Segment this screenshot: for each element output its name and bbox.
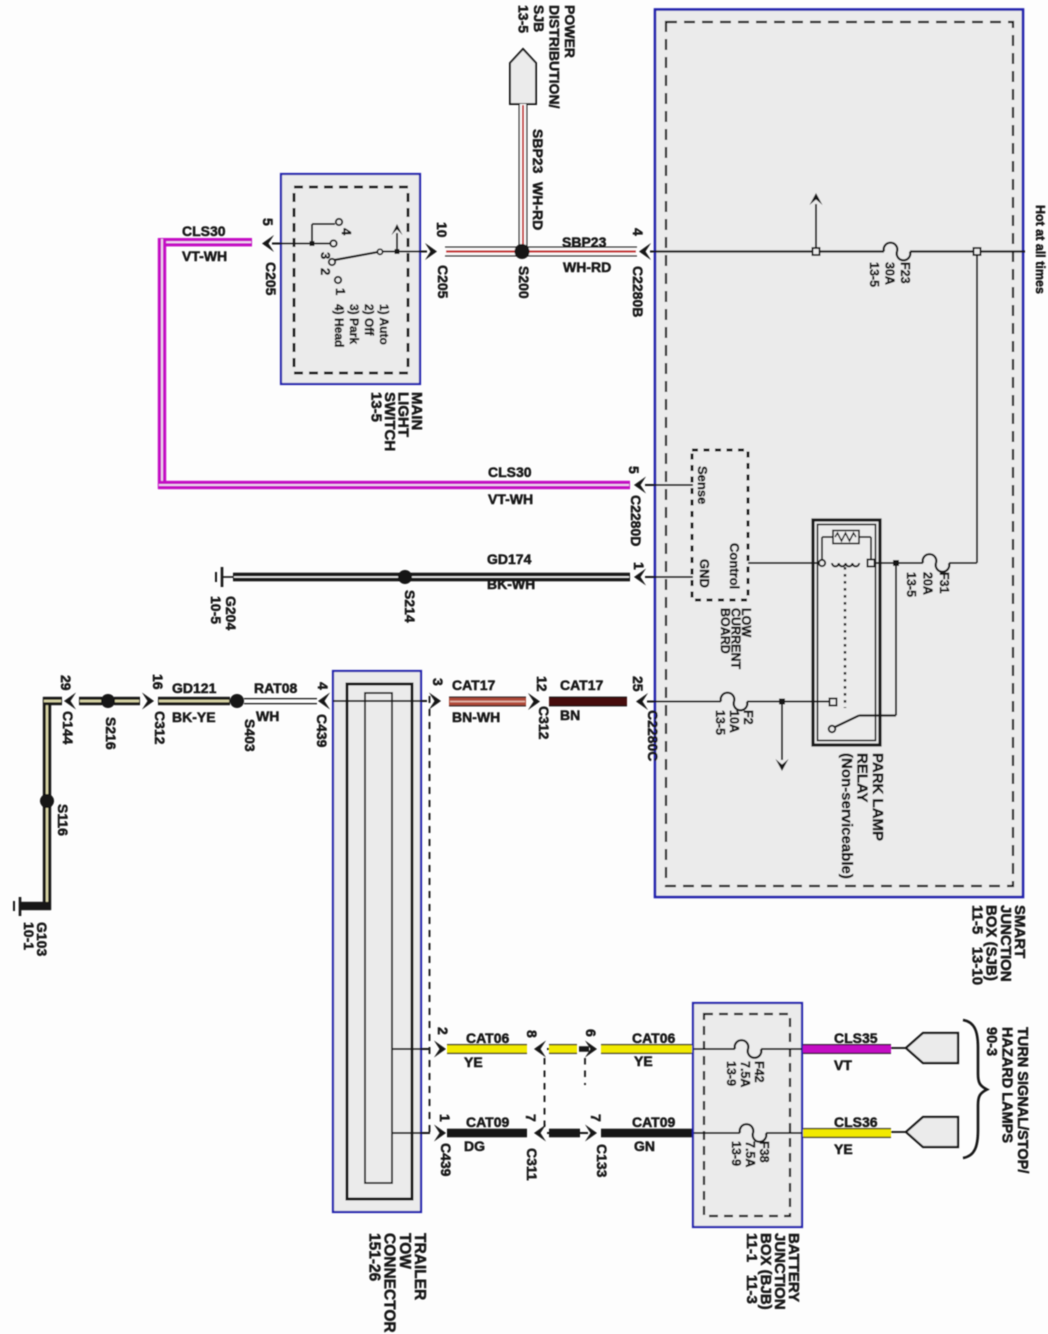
svg-text:CAT06: CAT06 xyxy=(466,1030,510,1046)
svg-text:CLS36: CLS36 xyxy=(834,1114,878,1130)
power distribution terminal pentagon xyxy=(510,49,536,104)
relay switch arm xyxy=(829,726,836,733)
pin 2 arrow at C439 xyxy=(434,1041,446,1058)
junction to F31 branch xyxy=(974,248,981,255)
svg-text:12: 12 xyxy=(534,676,550,692)
svg-text:1: 1 xyxy=(437,1114,453,1122)
svg-text:S116: S116 xyxy=(55,804,71,836)
svg-text:C133: C133 xyxy=(594,1144,610,1178)
svg-text:11-5 13-10: 11-5 13-10 xyxy=(968,905,985,985)
svg-text:HAZARD LAMPS: HAZARD LAMPS xyxy=(999,1027,1015,1143)
svg-text:WH-RD: WH-RD xyxy=(530,182,546,230)
svg-text:10: 10 xyxy=(434,222,450,238)
svg-text:YE: YE xyxy=(834,1141,853,1157)
pin 25 arrow at C2280C xyxy=(636,693,648,710)
svg-text:C439: C439 xyxy=(314,714,330,748)
relay switch fixed contact xyxy=(830,699,837,706)
label F38 7.5A 13-9 xyxy=(729,1141,771,1167)
wire down to F31 xyxy=(976,255,978,563)
label F42 7.5A 13-9 xyxy=(724,1061,766,1087)
fuse F31 20A xyxy=(923,554,950,572)
svg-text:VT-WH: VT-WH xyxy=(182,248,227,264)
svg-text:3: 3 xyxy=(430,678,446,686)
pin label 5 xyxy=(626,466,642,474)
svg-text:(Non-serviceable): (Non-serviceable) xyxy=(838,753,855,879)
wire CAT17 BN-WH xyxy=(449,697,526,706)
svg-text:VT: VT xyxy=(834,1057,852,1073)
label C311 xyxy=(524,1148,540,1181)
svg-text:GND: GND xyxy=(697,559,712,588)
wire S216 to C312 xyxy=(114,697,140,705)
svg-text:WH-RD: WH-RD xyxy=(563,259,611,275)
svg-text:13-9: 13-9 xyxy=(724,1061,738,1086)
label SBP23 WH-RD vertical xyxy=(530,129,546,174)
splice S200 xyxy=(515,244,530,259)
wire through trailer tow connector xyxy=(333,700,427,702)
pin label 1 xyxy=(631,562,647,570)
svg-text:5: 5 xyxy=(626,466,642,474)
svg-text:C205: C205 xyxy=(435,265,451,299)
svg-text:PARK LAMP: PARK LAMP xyxy=(869,753,886,841)
switch branch to pin 4 xyxy=(311,224,313,244)
label C133 xyxy=(594,1144,610,1178)
wire CLS36 YE xyxy=(803,1129,891,1138)
wire CLS30 vertical segment xyxy=(158,238,166,489)
svg-text:GD174: GD174 xyxy=(487,551,532,567)
svg-text:13-9: 13-9 xyxy=(729,1141,743,1166)
trailer tow connector label xyxy=(365,1233,428,1333)
label C312 mid xyxy=(536,706,552,740)
svg-text:6: 6 xyxy=(583,1029,599,1037)
wire control to relay coil xyxy=(748,562,820,564)
wire CAT06 YE middle xyxy=(549,1045,577,1054)
svg-text:7: 7 xyxy=(523,1114,539,1122)
svg-text:10-5: 10-5 xyxy=(208,596,224,624)
pin 8 arrow at C311 xyxy=(534,1041,546,1058)
label C2280C xyxy=(645,710,661,761)
branch junction with down arrow xyxy=(779,699,785,705)
svg-text:4) Head: 4) Head xyxy=(332,304,346,347)
connector C439 dashed line xyxy=(429,696,431,1135)
svg-text:C2280C: C2280C xyxy=(645,710,661,761)
svg-text:3) Park: 3) Park xyxy=(347,304,361,344)
switch wiper arm xyxy=(335,252,378,260)
pin label 10 xyxy=(434,222,450,238)
label S200 xyxy=(516,266,532,299)
pin 4 arrow at C2280B xyxy=(639,243,651,260)
switch pin 1 contact xyxy=(335,277,341,283)
svg-text:Hot at all times: Hot at all times xyxy=(1033,205,1047,294)
pin label Sense xyxy=(695,466,710,504)
svg-text:SBP23: SBP23 xyxy=(530,129,546,174)
branch junction with up arrow xyxy=(815,204,817,252)
splice S403 xyxy=(230,694,244,708)
wire stub to ground G103 xyxy=(21,902,51,910)
wire CAT09 middle xyxy=(549,1129,580,1138)
svg-text:13-5: 13-5 xyxy=(368,392,385,422)
svg-text:13-5: 13-5 xyxy=(867,262,881,287)
pin label GND xyxy=(697,559,712,588)
pin 1 arrow at C439 xyxy=(434,1125,446,1142)
pin label 5 xyxy=(260,218,276,226)
svg-text:RELAY: RELAY xyxy=(854,753,871,802)
svg-text:BOARD: BOARD xyxy=(718,608,732,654)
svg-text:29: 29 xyxy=(58,675,74,691)
svg-text:YE: YE xyxy=(634,1053,653,1069)
main light switch box outline xyxy=(281,174,420,384)
svg-text:7.5A: 7.5A xyxy=(738,1061,752,1087)
svg-text:13-5: 13-5 xyxy=(904,572,918,597)
svg-text:RAT08: RAT08 xyxy=(254,680,298,696)
hazard lamps terminal connector xyxy=(906,1117,958,1147)
label F2 10A 13-5 xyxy=(713,710,755,735)
svg-text:20A: 20A xyxy=(921,572,935,595)
battery junction box BJB outline xyxy=(693,1003,802,1227)
label G204 10-5 xyxy=(208,596,239,630)
fuse F2 10A xyxy=(721,693,747,710)
wire GD174 BK-WH xyxy=(233,573,630,582)
splice S214 xyxy=(398,570,412,584)
svg-text:BN: BN xyxy=(560,707,580,723)
wire inside BJB to F38 xyxy=(694,1132,802,1134)
label S214 xyxy=(402,590,418,623)
wire CAT09 DG xyxy=(447,1129,527,1138)
label C205 right xyxy=(435,265,451,299)
wire CAT17 BN xyxy=(549,697,627,706)
svg-text:5: 5 xyxy=(260,218,276,226)
main light switch dashed border xyxy=(294,187,408,373)
svg-text:2: 2 xyxy=(318,268,333,275)
svg-text:4: 4 xyxy=(315,682,331,690)
switch branch up arrow xyxy=(396,233,398,252)
pin 5 arrow at C205 xyxy=(262,235,274,252)
svg-text:7: 7 xyxy=(588,1114,604,1122)
svg-text:CAT17: CAT17 xyxy=(452,677,496,693)
svg-text:G204: G204 xyxy=(223,596,239,630)
svg-text:CLS30: CLS30 xyxy=(182,223,226,239)
svg-text:10A: 10A xyxy=(727,710,741,733)
svg-text:F38: F38 xyxy=(757,1141,771,1163)
switch pin 4 contact xyxy=(336,219,342,225)
wire GD121 BK-YE xyxy=(158,697,230,705)
svg-text:1: 1 xyxy=(333,288,348,295)
fuse F23 30A xyxy=(884,243,910,260)
low current board label xyxy=(718,608,753,669)
wire SBP23 WH-RD horizontal xyxy=(445,247,637,256)
svg-text:30A: 30A xyxy=(883,262,897,285)
pin 16 arrow at C312 xyxy=(142,693,154,710)
svg-text:POWER: POWER xyxy=(562,5,578,58)
BJB dashed border xyxy=(704,1014,790,1216)
svg-text:F42: F42 xyxy=(752,1061,766,1083)
wire CAT09 GN xyxy=(601,1129,692,1138)
svg-text:16: 16 xyxy=(150,674,166,690)
pin 7 arrow at C311 xyxy=(534,1125,546,1142)
svg-text:DISTRIBUTION/: DISTRIBUTION/ xyxy=(547,5,563,109)
wire trailer tow pin 1 xyxy=(393,1132,430,1134)
wire corner to C144 xyxy=(43,697,51,910)
park lamp relay outline xyxy=(813,520,880,745)
pin 5 arrow at C2280D xyxy=(634,477,646,494)
svg-text:F2: F2 xyxy=(741,710,755,725)
ground G103 xyxy=(19,897,22,916)
wire to turn signal terminal xyxy=(891,1047,907,1049)
label C2280D xyxy=(628,495,644,546)
main light switch label xyxy=(368,392,426,451)
relay suppression resistor xyxy=(821,537,823,560)
smart junction box SJB outline xyxy=(655,10,1023,898)
pin 3 arrow at C439 xyxy=(429,693,441,710)
svg-text:7.5A: 7.5A xyxy=(743,1141,757,1167)
svg-text:BK-YE: BK-YE xyxy=(172,709,216,725)
svg-text:Sense: Sense xyxy=(695,466,710,504)
svg-text:CAT09: CAT09 xyxy=(632,1114,676,1130)
svg-text:90-3: 90-3 xyxy=(983,1027,999,1056)
label C439 bottom xyxy=(438,1143,454,1177)
svg-text:SBP23: SBP23 xyxy=(562,234,607,250)
svg-text:CAT06: CAT06 xyxy=(632,1030,676,1046)
SJB label xyxy=(968,905,1028,985)
fuse F42 7.5A xyxy=(735,1041,761,1058)
low current board dashed box xyxy=(692,450,748,600)
label F31 20A 13-5 xyxy=(904,572,951,597)
svg-text:C2280D: C2280D xyxy=(628,495,644,546)
svg-text:13-5: 13-5 xyxy=(713,710,727,735)
label C2280B xyxy=(630,266,646,317)
wire RAT08 WH xyxy=(244,698,317,700)
wire trailer tow pin 2 xyxy=(393,1048,430,1050)
splice S116 xyxy=(40,794,54,808)
svg-text:4: 4 xyxy=(339,228,354,236)
svg-text:CAT09: CAT09 xyxy=(466,1114,510,1130)
label C144 xyxy=(60,711,76,745)
ground G204 xyxy=(221,567,224,587)
svg-text:TURN SIGNAL/STOP/: TURN SIGNAL/STOP/ xyxy=(1014,1027,1030,1173)
svg-text:8: 8 xyxy=(524,1030,540,1038)
svg-text:SJB: SJB xyxy=(531,5,547,32)
wire C144 to S216 xyxy=(79,697,102,705)
label C205 left xyxy=(263,262,279,296)
label C312 left xyxy=(152,711,168,745)
pin 29 arrow at C144 xyxy=(64,693,76,710)
trailer tow connector box outline xyxy=(333,671,421,1212)
svg-text:F23: F23 xyxy=(898,262,912,284)
relay label xyxy=(838,753,886,879)
svg-text:CLS35: CLS35 xyxy=(834,1030,878,1046)
svg-text:4: 4 xyxy=(630,228,646,236)
svg-text:25: 25 xyxy=(630,676,646,692)
wire inside BJB to F42 xyxy=(694,1048,802,1050)
BJB label xyxy=(743,1233,802,1310)
pin 6 arrow at C133 xyxy=(585,1041,597,1058)
svg-text:BK-WH: BK-WH xyxy=(487,576,535,592)
switch pin 3 contact xyxy=(330,240,336,246)
svg-text:C144: C144 xyxy=(60,711,76,745)
wire to hazard terminal xyxy=(891,1131,907,1133)
svg-text:YE: YE xyxy=(464,1054,483,1070)
pin 1 arrow at C2280D xyxy=(634,569,646,586)
svg-text:CLS30: CLS30 xyxy=(488,464,532,480)
svg-text:1: 1 xyxy=(631,562,647,570)
svg-text:DG: DG xyxy=(464,1138,485,1154)
wire hot at all times inside SJB xyxy=(656,250,1025,252)
trailer tow connector middle rectangle xyxy=(347,684,412,1199)
power distribution label xyxy=(516,5,579,109)
relay coil xyxy=(819,560,825,566)
fuse F38 7.5A xyxy=(740,1125,766,1142)
svg-text:C2280B: C2280B xyxy=(630,266,646,317)
label F23 30A 13-5 xyxy=(867,262,912,287)
connector C311 dashed line xyxy=(544,1058,546,1127)
pin 7 arrow at C133 xyxy=(585,1125,597,1142)
switch positions legend xyxy=(332,304,391,347)
wire coil to fuse F31 xyxy=(874,562,923,564)
relay output wire xyxy=(859,714,896,716)
wire CLS30 VT-WH bottom segment xyxy=(158,481,630,489)
svg-text:S200: S200 xyxy=(516,266,532,299)
SJB inner dashed border xyxy=(666,22,1013,886)
svg-text:C205: C205 xyxy=(263,262,279,296)
pin label 4 xyxy=(630,228,646,236)
wire CLS30 VT-WH top segment xyxy=(158,238,252,246)
curly brace to lamps xyxy=(963,1020,987,1158)
svg-text:11-1 11-3: 11-1 11-3 xyxy=(743,1233,760,1304)
pin 12 arrow at C312 xyxy=(528,693,540,710)
svg-text:1) Auto: 1) Auto xyxy=(377,304,391,345)
svg-text:C312: C312 xyxy=(536,706,552,740)
pin 10 arrow at C205 xyxy=(425,243,437,260)
svg-text:GN: GN xyxy=(634,1138,655,1154)
switch pin 2 contact xyxy=(329,259,335,265)
svg-text:13-5: 13-5 xyxy=(516,5,532,33)
label TURN SIGNAL STOP HAZARD LAMPS xyxy=(983,1027,1030,1173)
pin 4 arrow at C439 xyxy=(318,693,330,710)
svg-text:2) Off: 2) Off xyxy=(362,304,376,336)
wire CLS35 VT xyxy=(803,1045,891,1054)
wire CAT06 YE second xyxy=(601,1045,692,1054)
wire CAT06 YE first xyxy=(447,1045,527,1054)
svg-text:CAT17: CAT17 xyxy=(560,677,604,693)
svg-text:C439: C439 xyxy=(438,1143,454,1177)
svg-text:GD121: GD121 xyxy=(172,680,217,696)
svg-text:2: 2 xyxy=(435,1027,451,1035)
svg-text:F31: F31 xyxy=(937,572,951,594)
svg-text:S214: S214 xyxy=(402,590,418,623)
svg-text:151-26: 151-26 xyxy=(365,1233,382,1282)
label Hot at all times xyxy=(1033,205,1047,294)
wire C2280C to relay contact xyxy=(656,700,830,702)
wire SBP23 vertical from power distribution xyxy=(519,104,527,247)
label G103 10-1 xyxy=(21,922,50,956)
connector C133 dashed line xyxy=(584,1058,586,1085)
wire F31 up to hot feed xyxy=(949,562,977,564)
svg-text:BN-WH: BN-WH xyxy=(452,709,500,725)
svg-text:C311: C311 xyxy=(524,1148,540,1181)
svg-text:WH: WH xyxy=(256,708,279,724)
relay actuation dotted line xyxy=(844,567,846,708)
splice S216 xyxy=(101,694,115,708)
svg-text:C312: C312 xyxy=(152,711,168,745)
pin label Control xyxy=(727,543,742,589)
svg-text:10-1: 10-1 xyxy=(21,922,37,950)
wire C205 pin5 to switch common xyxy=(272,243,330,245)
label C439 top xyxy=(314,714,330,748)
turn signal terminal connector xyxy=(906,1033,958,1063)
svg-text:Control: Control xyxy=(727,543,742,589)
switch output wire xyxy=(383,251,427,253)
svg-text:VT-WH: VT-WH xyxy=(488,491,533,507)
trailer tow connector inner rectangle xyxy=(365,693,392,1183)
svg-text:S216: S216 xyxy=(103,717,119,750)
